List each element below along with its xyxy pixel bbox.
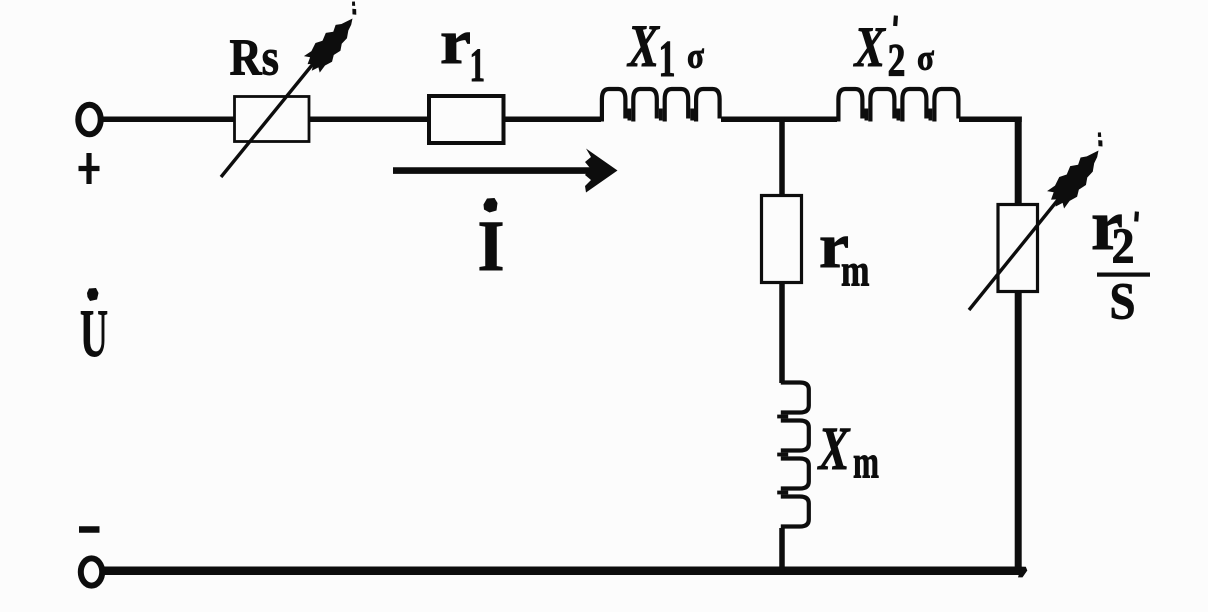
svg-text:U: U	[80, 295, 108, 371]
svg-text:1: 1	[659, 31, 676, 88]
svg-text:1: 1	[470, 39, 486, 92]
svg-text:S: S	[1110, 274, 1136, 331]
svg-text:2: 2	[1112, 217, 1135, 273]
svg-text:2: 2	[888, 35, 906, 87]
svg-text:X: X	[626, 13, 660, 79]
svg-text:m: m	[841, 246, 870, 296]
svg-text:X: X	[817, 415, 851, 483]
svg-text:X: X	[853, 16, 887, 79]
svg-text:σ: σ	[917, 38, 934, 78]
svg-text:σ: σ	[687, 36, 704, 76]
svg-text:m: m	[853, 437, 879, 489]
svg-text:Rs: Rs	[230, 30, 280, 87]
svg-text:I: I	[478, 206, 505, 286]
svg-text:r: r	[440, 6, 471, 77]
